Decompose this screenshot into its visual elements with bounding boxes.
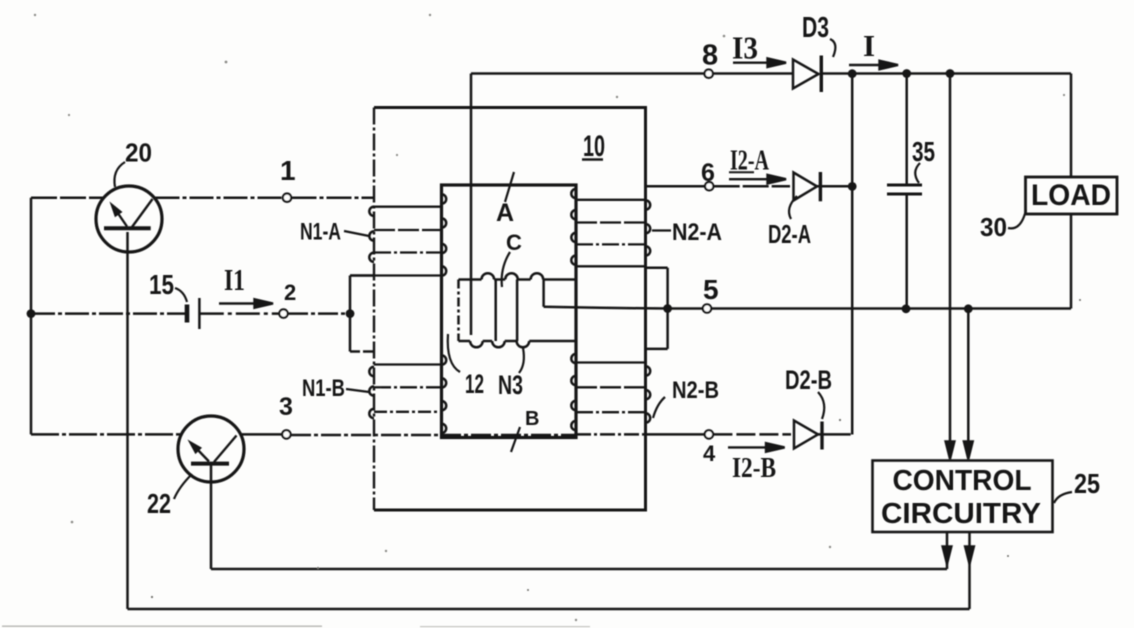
svg-text:25: 25	[1074, 468, 1100, 499]
svg-text:N2-A: N2-A	[672, 219, 722, 246]
svg-text:6: 6	[701, 159, 715, 187]
svg-text:12: 12	[465, 369, 484, 399]
svg-text:D2-B: D2-B	[785, 365, 832, 395]
svg-text:3: 3	[279, 393, 293, 421]
svg-text:4: 4	[703, 441, 716, 466]
svg-text:1: 1	[280, 155, 296, 186]
svg-text:30: 30	[980, 212, 1007, 242]
svg-text:B: B	[525, 408, 539, 430]
svg-text:2: 2	[284, 280, 296, 305]
svg-text:N1-A: N1-A	[300, 219, 341, 246]
svg-text:8: 8	[702, 40, 718, 72]
svg-text:I3: I3	[732, 30, 758, 66]
svg-text:N3: N3	[498, 370, 523, 400]
svg-text:22: 22	[147, 488, 171, 519]
svg-text:5: 5	[703, 274, 719, 305]
svg-text:D3: D3	[802, 12, 829, 44]
svg-text:A: A	[496, 199, 514, 227]
svg-text:15: 15	[149, 269, 174, 300]
svg-text:LOAD: LOAD	[1031, 179, 1111, 212]
svg-text:I2-A: I2-A	[730, 145, 769, 177]
svg-text:CONTROL: CONTROL	[893, 465, 1032, 497]
svg-text:I2-B: I2-B	[732, 452, 776, 484]
svg-text:I: I	[863, 28, 875, 63]
svg-text:10: 10	[583, 130, 605, 163]
svg-text:N1-B: N1-B	[302, 375, 345, 402]
svg-text:D2-A: D2-A	[768, 219, 811, 249]
svg-text:35: 35	[912, 136, 935, 167]
svg-text:C: C	[506, 230, 522, 255]
svg-text:20: 20	[125, 138, 152, 168]
svg-text:N2-B: N2-B	[672, 377, 719, 404]
svg-text:CIRCUITRY: CIRCUITRY	[881, 498, 1041, 530]
svg-text:I1: I1	[224, 262, 245, 297]
